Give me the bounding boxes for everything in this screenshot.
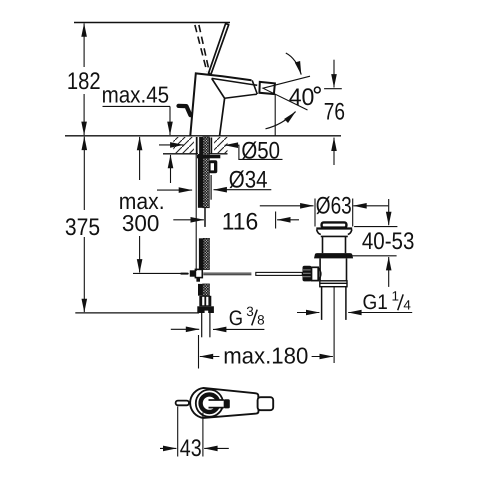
faucet body: [190, 73, 257, 135]
clevis stem: [196, 278, 200, 282]
svg-text:1: 1: [392, 289, 400, 304]
svg-text:375: 375: [65, 214, 100, 241]
top view left pin: [176, 401, 189, 406]
hose ferrule: [199, 296, 211, 307]
svg-text:3: 3: [246, 304, 254, 319]
dimension diameter 63: [260, 193, 388, 227]
svg-text:40-53: 40-53: [362, 228, 415, 255]
dimension max.180: [199, 335, 333, 369]
dimension diameter 50: [159, 137, 283, 164]
waste flange top: [316, 227, 352, 229]
horizontal rod left segment: [203, 273, 251, 275]
waste centerline: [333, 287, 335, 363]
supply hose braided upper: [199, 238, 210, 269]
top view thick ring: [201, 394, 219, 412]
supply hose braided lower: [196, 155, 209, 296]
pull rod pin left: [180, 273, 189, 275]
aerator V / 40 degree rays: [263, 76, 310, 110]
dimension 375: [65, 137, 100, 312]
waste O-ring band: [314, 253, 353, 258]
svg-text:Ø34: Ø34: [229, 166, 268, 193]
dimension 43: [160, 407, 229, 462]
dimension G3/8: [171, 304, 265, 330]
mounting shank dark bar: [196, 137, 203, 208]
deck hatch left: [163, 137, 228, 154]
rod connector cylinder: [312, 267, 321, 280]
bottom hose reference line: [75, 312, 199, 314]
handle blade dashed position: [195, 25, 210, 73]
waste flange sides: [317, 230, 352, 237]
dimension 116: [173, 209, 299, 236]
spout tip extension line: [274, 95, 276, 136]
dimension diameter 34: [157, 166, 271, 193]
spout tip piece: [259, 82, 275, 94]
top view body capsule: [190, 388, 258, 418]
rod clevis white block: [195, 269, 202, 277]
dimension 182: [67, 23, 101, 135]
svg-text:4: 4: [403, 297, 411, 312]
deck line: [65, 135, 341, 137]
dimension G1 1/4: [297, 289, 412, 314]
svg-text:G1: G1: [363, 291, 388, 314]
threaded rod tail: [204, 208, 206, 227]
svg-text:182: 182: [67, 68, 101, 95]
waste collar: [320, 281, 347, 287]
top reference line: [74, 22, 230, 24]
svg-text:116: 116: [222, 209, 259, 236]
dimension 40-53: [350, 199, 415, 287]
svg-text:300: 300: [122, 210, 159, 236]
svg-text:max.45: max.45: [102, 82, 170, 108]
pop-up waste cap: [322, 222, 347, 227]
washer under deck: [197, 155, 220, 158]
rod clevis dark block: [190, 270, 196, 276]
mounting nut: [209, 160, 217, 173]
dimension max.45: [102, 82, 171, 183]
dimension max.300: [119, 137, 186, 274]
waste body lower: [320, 258, 346, 280]
svg-text:Ø63: Ø63: [316, 193, 352, 220]
threaded shank: [203, 137, 210, 208]
horizontal rod right segment: [256, 272, 302, 275]
svg-text:Ø50: Ø50: [241, 137, 280, 164]
svg-text:G: G: [229, 307, 243, 330]
hose tail pipe: [202, 313, 210, 337]
rod knurled knob: [303, 266, 312, 282]
svg-text:76: 76: [324, 99, 345, 126]
deck hatch right: [214, 137, 227, 153]
svg-text:max.180: max.180: [223, 343, 308, 369]
dimension 40 degrees: [266, 53, 321, 129]
top view outer circle: [196, 390, 223, 417]
top view nose: [258, 397, 274, 410]
waste tailpipe G1 1/4: [322, 287, 346, 320]
svg-text:8: 8: [257, 312, 265, 327]
shank right wall: [210, 138, 212, 200]
handle blade solid: [209, 24, 229, 75]
dimension 76: [324, 60, 345, 165]
hose nut G3/8: [197, 306, 214, 313]
top view blade: [209, 399, 230, 408]
svg-text:40: 40: [289, 84, 315, 111]
svg-text:43: 43: [180, 435, 202, 462]
waste body upper: [323, 236, 346, 253]
side lever: [179, 106, 191, 115]
